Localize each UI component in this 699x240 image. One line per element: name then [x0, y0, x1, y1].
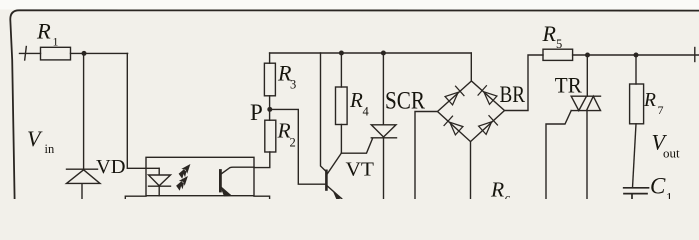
- svg-text:out: out: [663, 146, 680, 161]
- svg-text:VD: VD: [96, 156, 126, 178]
- bridge BR diamond: [438, 81, 505, 142]
- svg-text:2: 2: [290, 135, 296, 149]
- resistor R7: [630, 84, 644, 124]
- wire riser to optocoupler: [127, 53, 159, 168]
- bridge diode D-BR: [478, 116, 497, 135]
- thyristor SCR: [371, 125, 396, 138]
- svg-text:SCR: SCR: [385, 85, 425, 114]
- diode VD: [67, 169, 101, 199]
- wire R3 top drop: [269, 53, 271, 63]
- wire bottom (LED return + box bottom extension): [125, 196, 146, 199]
- wire BR bottom down: [470, 142, 472, 199]
- LED D1 inside optocoupler: [149, 168, 171, 195]
- bridge diode D-BL: [444, 116, 463, 135]
- wire SCR cathode: [383, 138, 385, 199]
- wire rail right: [573, 54, 699, 56]
- transistor VT collector: [328, 153, 342, 173]
- wire box-bottom to right stub: [254, 196, 270, 199]
- svg-text:in: in: [45, 142, 55, 156]
- svg-text:R: R: [643, 90, 656, 111]
- node A junction dot: [82, 51, 87, 56]
- triac TR: [571, 96, 600, 110]
- svg-text:3: 3: [290, 77, 296, 91]
- svg-text:TR: TR: [555, 72, 582, 97]
- wire TR drop: [586, 55, 588, 96]
- wire mid top rail: [270, 52, 472, 54]
- wire R2 bottom to opto collector: [254, 152, 270, 168]
- wire SCR anode: [382, 53, 384, 125]
- wire BR left vertex down: [415, 112, 438, 200]
- svg-text:VT: VT: [346, 159, 375, 181]
- resistor R4: [336, 87, 348, 125]
- wire TR main down: [586, 111, 588, 199]
- capacitor C1: [624, 188, 649, 199]
- svg-text:R: R: [490, 178, 504, 200]
- node SCR top junction: [381, 51, 386, 56]
- svg-text:R: R: [349, 88, 363, 112]
- wire VD riser: [83, 53, 85, 168]
- resistor R5: [543, 49, 573, 60]
- node P junction dot: [267, 107, 272, 112]
- resistor R2: [265, 120, 276, 152]
- wire R7 to C1: [633, 124, 637, 188]
- wire TR gate: [546, 111, 571, 199]
- transistor VT emitter with arrow: [328, 186, 342, 199]
- svg-text:4: 4: [363, 104, 370, 118]
- svg-text:6: 6: [505, 194, 511, 200]
- wire R1 to corner riser: [71, 52, 128, 54]
- wire P to VT base: [270, 109, 326, 184]
- wire BR right vertex to rail: [505, 55, 544, 111]
- svg-text:R: R: [36, 19, 51, 44]
- white strip above figure border: [0, 0, 699, 10]
- figure border (top + left, rounded corner, slight skew): [10, 10, 699, 199]
- bridge diode D-TR: [478, 86, 497, 105]
- node R4 top junction: [339, 51, 344, 56]
- wire SCR gate: [341, 139, 372, 154]
- terminal + (output plus): [694, 48, 696, 62]
- svg-text:1: 1: [666, 190, 673, 200]
- resistor R3: [264, 63, 275, 96]
- svg-text:R: R: [542, 21, 557, 46]
- transistor VT base bar: [325, 171, 328, 190]
- wire rail riser to VT collector: [321, 53, 327, 172]
- svg-text:7: 7: [658, 103, 664, 117]
- wire R7 drop: [635, 55, 637, 84]
- node TR top junction: [585, 53, 590, 58]
- wire R4 top: [340, 53, 342, 87]
- bridge diode D-TL: [445, 86, 464, 105]
- wire R4 bottom to gate tee: [340, 125, 342, 154]
- svg-text:5: 5: [556, 37, 562, 51]
- light emission arrows: [177, 162, 194, 180]
- svg-text:BR: BR: [500, 82, 526, 107]
- wire (+ to R1): [20, 52, 41, 54]
- svg-text:1: 1: [53, 34, 59, 48]
- resistor R1: [41, 47, 71, 60]
- terminal + (input plus): [25, 47, 27, 61]
- svg-text:C: C: [650, 174, 666, 199]
- optocoupler U1 box: [146, 157, 254, 195]
- phototransistor Q1: [219, 171, 222, 192]
- wire R3 bottom to P: [269, 96, 271, 120]
- wire rail to BR top: [470, 53, 472, 81]
- svg-text:P: P: [250, 100, 263, 125]
- node R7 top junction: [634, 53, 639, 58]
